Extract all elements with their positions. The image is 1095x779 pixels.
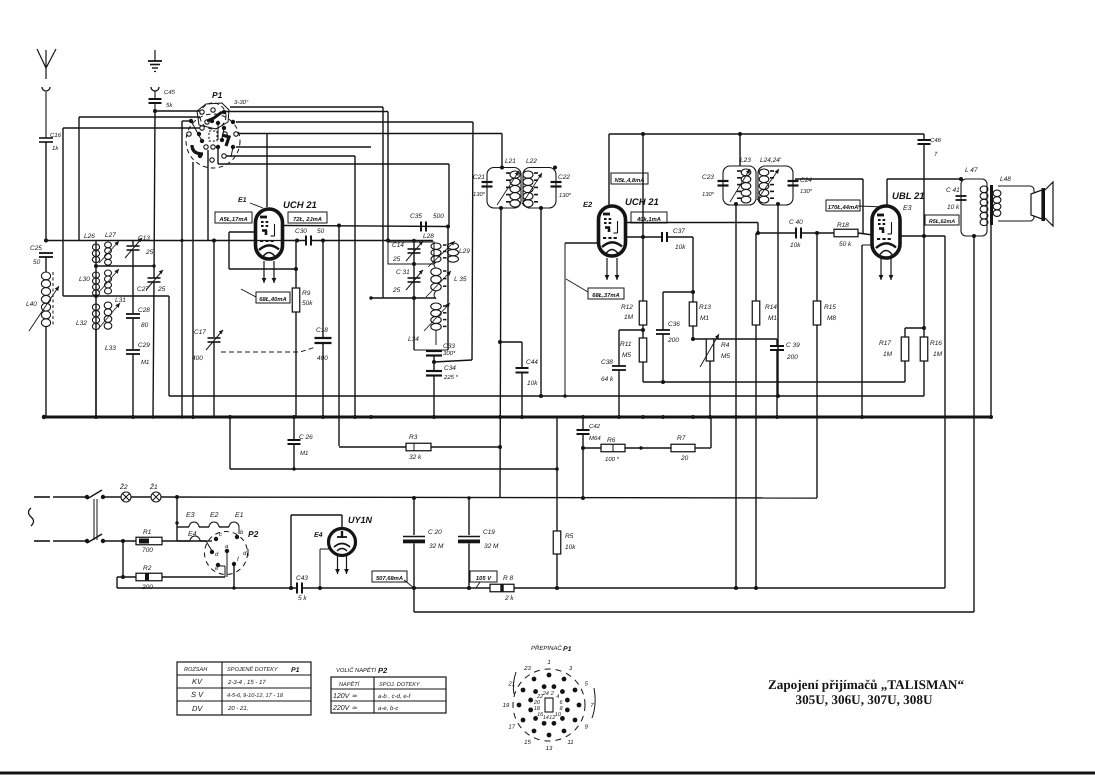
svg-text:11: 11 (567, 739, 573, 746)
node C30 left (295, 239, 299, 243)
resistor R3 (406, 443, 431, 451)
node x756 y588 (754, 586, 758, 590)
svg-text:C29: C29 (138, 342, 150, 349)
switch P1 inner links (191, 121, 202, 141)
svg-text:225 *: 225 * (443, 374, 459, 381)
svg-text:5 k: 5 k (298, 595, 307, 602)
wire R18 to tube (858, 233, 873, 235)
svg-text:C37: C37 (673, 228, 685, 235)
capacitor C34 (426, 370, 442, 372)
svg-text:C 39: C 39 (786, 342, 800, 349)
wire P1 lead x182 (181, 121, 183, 417)
coil L26 (92, 244, 99, 250)
svg-text:130*: 130* (702, 191, 715, 198)
wire lamp link (131, 496, 151, 498)
svg-text:M5: M5 (622, 352, 631, 359)
svg-text:C42: C42 (589, 423, 601, 430)
P1 detail inner contacts (552, 684, 557, 689)
capacitor C40 (795, 228, 797, 239)
svg-text:R6: R6 (607, 437, 616, 444)
speaker bar (1042, 188, 1046, 221)
coil L32 (92, 304, 99, 310)
svg-text:R17: R17 (879, 340, 891, 347)
svg-text:M5: M5 (721, 353, 730, 360)
svg-text:C36: C36 (668, 321, 680, 328)
IF1 box right (523, 168, 556, 209)
svg-text:C34: C34 (444, 365, 456, 372)
wire lower return (413, 588, 415, 612)
svg-text:R14: R14 (765, 304, 777, 311)
wire y298 line (371, 297, 436, 299)
node R14 top (756, 231, 760, 235)
wire anode supply L47 (887, 178, 961, 180)
resistor R11 (642, 325, 644, 338)
coil L34 arrow (424, 303, 450, 331)
wire grid line through E1 (256, 240, 283, 242)
wire L21 bottom (500, 208, 501, 498)
node C42 R6 (581, 446, 585, 450)
node bus x522 (520, 415, 524, 419)
tube E1 UCH21 (256, 209, 283, 259)
capacitor C31 (408, 277, 421, 279)
ground bus (42, 416, 991, 419)
svg-text:C45: C45 (164, 89, 176, 96)
node bus x693 (691, 415, 695, 419)
IF1 box left (487, 168, 521, 209)
node antenna junction (44, 239, 48, 243)
node E1 bracket (294, 267, 298, 271)
svg-text:C19: C19 (483, 529, 495, 536)
svg-text:C23: C23 (702, 174, 714, 181)
svg-text:80: 80 (141, 322, 149, 329)
capacitor C41 (956, 195, 967, 197)
svg-text:50k: 50k (302, 300, 313, 307)
svg-text:1M: 1M (883, 351, 893, 358)
wire C24 top link (795, 178, 863, 180)
wire C45 down chain (154, 111, 155, 278)
mains bottom lead (34, 540, 50, 542)
wire C14 C31 chain (413, 241, 415, 351)
svg-text:16: 16 (537, 712, 544, 718)
current box E2 anode (631, 212, 667, 223)
wire y588 mid (415, 587, 490, 589)
wire switch to lamps (103, 496, 121, 498)
node bus x323 (321, 415, 325, 419)
capacitor C22 (551, 181, 562, 183)
svg-text:1k: 1k (52, 145, 59, 152)
wire vertical x79 (78, 117, 80, 241)
coil L22 (523, 171, 533, 178)
svg-text:L29: L29 (459, 248, 470, 255)
svg-text:L23: L23 (740, 157, 751, 164)
node bus x663 (661, 415, 665, 419)
svg-text:P1: P1 (212, 90, 223, 100)
switch P2 contacts (235, 535, 239, 539)
svg-text:NAPĚTÍ: NAPĚTÍ (339, 681, 361, 688)
node R6 R7 (639, 446, 642, 449)
capacitor C17 line (213, 241, 215, 338)
svg-text:UY1N: UY1N (348, 515, 373, 525)
svg-text:C38: C38 (601, 359, 613, 366)
node rail L30 bottom (94, 294, 98, 298)
current box E1 anode (288, 212, 327, 223)
capacitor C44 (521, 342, 523, 368)
node bus x355 (353, 415, 357, 419)
coil core osc1 (443, 244, 447, 246)
svg-text:220V ≃: 220V ≃ (332, 705, 357, 712)
svg-text:M1: M1 (141, 359, 149, 366)
node L47 bottom (972, 234, 976, 238)
svg-text:R3: R3 (409, 434, 418, 441)
svg-text:M1: M1 (768, 315, 777, 322)
switch P1 upper ring (197, 103, 229, 129)
wire h342 (500, 341, 522, 343)
wire L34 to C33 (435, 330, 437, 345)
wire power top line (161, 497, 817, 498)
svg-text:20: 20 (680, 455, 689, 462)
svg-text:2-3-4 , 15 - 17: 2-3-4 , 15 - 17 (227, 679, 266, 686)
svg-text:R 8: R 8 (503, 575, 514, 582)
svg-text:L28: L28 (423, 233, 434, 240)
node rail L26 bottom (94, 264, 98, 268)
node C19 y588 (467, 586, 471, 590)
node R13 R4 (691, 337, 695, 341)
wire E1 topcap (266, 134, 268, 208)
svg-text:100 *: 100 * (605, 456, 620, 463)
capacitor C37 (661, 232, 663, 242)
coil L21 core (506, 172, 510, 174)
svg-text:1: 1 (547, 659, 550, 666)
heater E4 (177, 540, 190, 542)
svg-text:13: 13 (546, 745, 553, 752)
capacitor C36 (662, 292, 664, 330)
wire rail x96 lower (95, 330, 97, 417)
svg-text:L 47: L 47 (965, 167, 978, 174)
svg-text:R16: R16 (930, 340, 942, 347)
L47 box (961, 179, 987, 236)
svg-text:400: 400 (192, 355, 203, 362)
wire P1 line left b (63, 127, 202, 129)
current box UY1N (372, 571, 407, 582)
wire P1 line2 right (236, 121, 473, 123)
wire x945 down (944, 236, 946, 588)
current box E1 (215, 212, 252, 223)
svg-text:R15: R15 (824, 304, 836, 311)
node R2 left (121, 575, 125, 579)
svg-text:PŘEPINAČ: PŘEPINAČ (531, 644, 562, 652)
svg-text:10k: 10k (790, 242, 801, 249)
svg-text:E2: E2 (210, 512, 219, 519)
svg-text:SPOJ. DOTEKY: SPOJ. DOTEKY (379, 682, 421, 688)
svg-text:C 31: C 31 (396, 269, 410, 276)
switch P1 key (209, 131, 217, 141)
svg-text:M8: M8 (827, 315, 836, 322)
tube UY1N cathode (320, 548, 331, 550)
coil L22 core (534, 172, 538, 174)
label E1 leader (250, 203, 263, 208)
svg-text:5k: 5k (166, 102, 173, 109)
resistor R12 (642, 134, 644, 301)
svg-text:C 41: C 41 (946, 187, 960, 194)
svg-text:50 k: 50 k (839, 241, 852, 248)
node y298 x371 (369, 296, 372, 299)
coil L24 core (770, 170, 774, 172)
coil L24 arrow (757, 169, 779, 200)
switch P1 lever arcs (207, 112, 222, 121)
svg-text:3-30°: 3-30° (234, 99, 249, 106)
capacitor C21 (482, 181, 493, 183)
wire avc line y396 (169, 395, 924, 397)
svg-text:12: 12 (549, 715, 555, 721)
node C30 right (321, 239, 325, 243)
speaker horn (1045, 182, 1053, 226)
wire P1 line1 left (155, 110, 200, 112)
table P2 frame (331, 677, 446, 713)
svg-text:C18: C18 (316, 327, 328, 334)
wire x862 cathode (862, 244, 874, 246)
svg-text:507,68mA: 507,68mA (376, 575, 403, 582)
wire E2 topcap (608, 134, 610, 206)
wire h339 (693, 338, 777, 340)
coil L28 (431, 243, 441, 249)
svg-text:72Ł, 2JmA: 72Ł, 2JmA (293, 216, 322, 223)
svg-text:10 k: 10 k (947, 204, 960, 211)
heater E3 E2 E1 (177, 526, 189, 528)
wire h469 (230, 468, 557, 470)
coil L35 arrow (426, 271, 451, 297)
wire B+ line (117, 587, 297, 589)
svg-text:700: 700 (142, 547, 153, 554)
resistor R15 (816, 233, 818, 301)
wire y134 corner (923, 133, 925, 135)
wire L40 to bus (45, 327, 47, 417)
node f bottom (232, 586, 235, 589)
bottom border bar (0, 772, 1095, 775)
wire P1 line4 right (236, 146, 371, 148)
node bus x500 (498, 415, 502, 419)
svg-text:2 k: 2 k (504, 595, 514, 602)
svg-text:L30: L30 (79, 276, 90, 283)
wire R2 to P2 (162, 576, 225, 578)
capacitor C42 (582, 417, 584, 430)
wire E3 anode top (886, 179, 888, 207)
svg-text:32 k: 32 k (409, 454, 422, 461)
wire E3 right (899, 235, 945, 237)
svg-text:UCH 21: UCH 21 (625, 197, 659, 208)
node R15 top (815, 231, 819, 235)
node bus x777 (775, 415, 779, 419)
coil L23 (741, 169, 751, 176)
resistor R18 (834, 229, 858, 237)
current box E3 (925, 215, 959, 225)
P1 detail key (545, 698, 553, 712)
coil L40 (41, 272, 50, 280)
coil L34 (434, 291, 436, 299)
speaker driver (1031, 190, 1042, 219)
svg-text:130*: 130* (559, 192, 572, 199)
wire y240 right part (283, 240, 306, 242)
wire R1 feed (103, 540, 136, 542)
node power x177 (175, 495, 179, 499)
coil L28 arrow (428, 241, 455, 267)
wire P1 line1 right (224, 111, 388, 113)
svg-text:E2: E2 (583, 200, 593, 209)
node C45 junction (153, 109, 157, 113)
svg-text:P2: P2 (378, 666, 388, 675)
svg-text:10k: 10k (565, 544, 576, 551)
svg-text:Ž1: Ž1 (149, 483, 158, 491)
svg-text:E1: E1 (235, 512, 244, 519)
coil L24 (759, 169, 769, 176)
wire vertical x473 (472, 122, 473, 360)
svg-text:KV: KV (192, 677, 203, 686)
capacitor C39 (776, 339, 778, 345)
svg-text:M1: M1 (700, 315, 709, 322)
switch P2 ring (205, 532, 248, 575)
svg-text:L40: L40 (26, 301, 37, 308)
svg-text:S V: S V (191, 690, 204, 699)
svg-text:C22: C22 (558, 174, 570, 181)
wire R7 up (695, 447, 711, 449)
svg-text:E3: E3 (186, 512, 195, 519)
capacitor C19 (468, 498, 470, 535)
node IF2 bottom L24 (776, 202, 780, 206)
wire P1 line3 right (238, 133, 502, 135)
L48 box (998, 186, 1034, 221)
wire y588 right (514, 587, 945, 589)
antenna plug (42, 87, 50, 91)
node IF1 bottom L21 (499, 206, 503, 210)
wire E2 anode (626, 222, 758, 224)
node R1 left (121, 539, 125, 543)
svg-text:P1: P1 (563, 646, 572, 653)
svg-text:a-b , c-d, e-f: a-b , c-d, e-f (378, 693, 412, 700)
wire h266 (96, 265, 154, 267)
svg-text:Ž2: Ž2 (119, 483, 128, 491)
wire osc feedback (434, 360, 472, 362)
svg-text:15: 15 (524, 739, 531, 746)
lamp Z2 (121, 492, 131, 502)
node R5 top (555, 467, 559, 471)
wire h382 (643, 381, 905, 383)
resistor R17 (905, 327, 924, 329)
capacitor C26 (293, 417, 295, 440)
node bus x434 (432, 415, 436, 419)
svg-text:C 40: C 40 (789, 219, 803, 226)
resistor R14 (755, 233, 757, 301)
node bus x153 (151, 415, 155, 419)
capacitor C33 (426, 350, 442, 352)
svg-text:C43: C43 (296, 575, 308, 582)
coil L23 core (737, 170, 741, 172)
wire P1 line left a (79, 116, 200, 118)
node bus x294 (292, 415, 296, 419)
wire E1 anode line (283, 226, 447, 227)
svg-text:UBL 21: UBL 21 (892, 191, 925, 202)
node x924 y236 (922, 234, 926, 238)
svg-text:200: 200 (667, 337, 679, 344)
wire IF2 top feed (739, 134, 741, 166)
svg-text:17: 17 (508, 724, 515, 731)
capacitor C18 (315, 337, 332, 339)
svg-text:C16: C16 (50, 132, 62, 139)
node IF1 top (500, 166, 504, 170)
capacitor C35 (420, 222, 422, 232)
node x414 y588 (412, 586, 416, 590)
svg-text:1M: 1M (624, 314, 634, 321)
svg-text:130*: 130* (800, 188, 813, 195)
coil L31 (105, 270, 112, 276)
ground plug C45 (151, 87, 159, 91)
svg-text:C17: C17 (194, 329, 206, 336)
resistor R8 (490, 584, 514, 592)
resistor R13 (689, 302, 697, 326)
svg-text:R13: R13 (699, 304, 711, 311)
svg-text:L32: L32 (76, 320, 87, 327)
resistor R1 (136, 537, 162, 545)
wire P1 line upper2 (230, 106, 383, 108)
wire P1 osc line down x388 (387, 112, 389, 241)
wire vertical x383 (382, 107, 384, 298)
svg-text:170Ł,44mA: 170Ł,44mA (828, 204, 859, 211)
wire E2 left stub (565, 242, 598, 244)
tube E2 UCH21 (599, 206, 626, 256)
svg-text:C25: C25 (30, 245, 42, 252)
svg-text:25: 25 (392, 256, 401, 263)
wire vertical x449 to osc (448, 164, 450, 227)
current box E2 grid (588, 288, 624, 299)
node heater tap (175, 521, 178, 524)
node bus x133 (131, 415, 135, 419)
capacitor C28 (126, 313, 140, 315)
svg-text:68Ł,40mA: 68Ł,40mA (259, 296, 286, 303)
node bus x230 (228, 415, 232, 419)
coil L23 arrow (730, 169, 750, 202)
svg-text:M64: M64 (589, 435, 601, 442)
coil L40 core (52, 272, 54, 327)
coil L21 arrow (497, 171, 519, 205)
svg-text:10k: 10k (675, 244, 686, 251)
coil L30 (93, 272, 100, 278)
wire C40 to R18 (801, 232, 834, 234)
svg-text:105 V: 105 V (476, 575, 492, 582)
wire vertical x339 to R3 (338, 226, 340, 447)
resistor R7 (671, 444, 695, 452)
node IF1 top right (553, 166, 557, 170)
svg-text:DV: DV (192, 704, 203, 713)
node bus x862 (860, 415, 864, 419)
svg-text:20 - 21,: 20 - 21, (227, 705, 248, 712)
wire C43 right (302, 587, 415, 589)
node L47 top (959, 177, 963, 181)
svg-text:50: 50 (317, 228, 325, 235)
svg-text:50: 50 (33, 259, 41, 266)
resistor R16 (923, 328, 925, 337)
wire L47 bottom down (973, 236, 975, 612)
svg-text:14: 14 (543, 715, 549, 721)
svg-text:C 20: C 20 (428, 529, 442, 536)
svg-text:N5Ł,4,8mA: N5Ł,4,8mA (615, 177, 645, 184)
antenna symbol (45, 68, 47, 79)
svg-text:R12: R12 (621, 304, 633, 311)
svg-text:10: 10 (555, 712, 562, 718)
switch link (93, 499, 95, 540)
capacitor C27 (148, 277, 161, 279)
wire R2 feed (122, 541, 124, 577)
mains top lead (34, 496, 50, 498)
svg-text:18: 18 (534, 706, 541, 712)
svg-text:32 M: 32 M (484, 543, 499, 550)
